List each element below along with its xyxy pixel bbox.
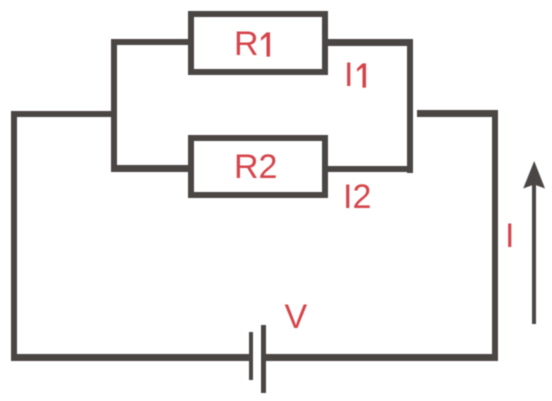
wire: left outer horizontal (node A to parallel junction) xyxy=(11,111,118,118)
wire: bottom right (battery positive side) xyxy=(266,354,498,361)
wire: right outer horizontal xyxy=(417,110,499,117)
label I2 (current through R2) xyxy=(343,180,371,214)
wire: right branch vertical (parallel merge) xyxy=(407,39,414,173)
resistor R1 xyxy=(188,11,328,75)
label I (total current) xyxy=(505,219,514,253)
battery V: short plate (negative) xyxy=(249,332,254,380)
current arrow I: shaft xyxy=(532,184,537,324)
label I1 (current through R1) xyxy=(344,58,353,92)
wire: bottom branch from R2 right xyxy=(328,166,413,173)
wire: top branch from R1 right xyxy=(328,39,413,46)
label R2 xyxy=(234,150,277,184)
label V (battery voltage) xyxy=(285,300,308,334)
battery V: long plate (positive) xyxy=(261,325,266,393)
label R1 xyxy=(234,27,259,61)
wire: bottom branch into R2 left xyxy=(117,165,188,172)
wire: right outer vertical xyxy=(492,110,499,361)
wire: left outer vertical xyxy=(11,111,18,361)
wire: bottom left (battery negative side) xyxy=(11,354,250,361)
resistor R2 xyxy=(188,135,328,198)
wire: left branch vertical (parallel split) xyxy=(111,39,118,172)
current arrow I: head xyxy=(520,158,548,190)
wire: top branch into R1 left xyxy=(111,39,189,46)
